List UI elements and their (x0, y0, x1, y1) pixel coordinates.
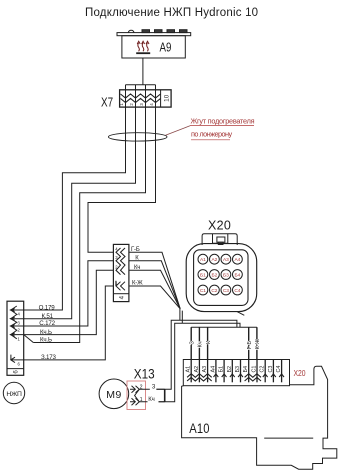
svg-text:X13: X13 (134, 367, 155, 382)
svg-text:А2: А2 (194, 366, 200, 373)
harness note text (191, 116, 255, 138)
X13 contact link (135, 389, 140, 402)
harness oval marker (108, 133, 167, 141)
X2 tab (202, 234, 237, 245)
XS pin numbers (115, 247, 118, 286)
wire 2 X7 to NZhP pin3 (24, 107, 136, 319)
X7 contacts zigzag row2 (121, 99, 161, 103)
svg-text:А9: А9 (160, 41, 172, 54)
A9 mounting pads (142, 30, 150, 33)
wire 4 X7 to XS pin4 (88, 107, 156, 252)
svg-text:Подключение НЖП Hydronic 10: Подключение НЖП Hydronic 10 (85, 7, 258, 19)
X13 pin numbers (140, 384, 143, 403)
svg-text:НЖП: НЖП (6, 391, 22, 398)
NZhP contact 1 (11, 310, 24, 335)
wire XS G-B to junction (129, 252, 180, 308)
X20 pin Б4 (248, 360, 250, 383)
X2 pin circles row C (198, 285, 208, 295)
NZhP contact 6 (11, 355, 24, 363)
svg-text:X20: X20 (208, 219, 231, 233)
X7 pin 10 label (163, 94, 170, 102)
harness bus over X20 (191, 326, 257, 328)
XS contacts 1-3 zigzag col1 (116, 248, 121, 275)
svg-text:С3: С3 (223, 288, 229, 294)
wire A9 to X7 (142, 58, 144, 85)
X20 pin А2 (198, 360, 200, 383)
tooth Z to A1 (190, 327, 192, 359)
A9 dome (128, 30, 134, 32)
X20 pin А1 (190, 360, 192, 383)
X20 pin С2 (264, 360, 266, 383)
tooth labels (189, 338, 261, 349)
svg-text:К-Ж: К-Ж (255, 338, 261, 349)
X20 strip label red (294, 368, 306, 378)
X20 pin Б3 (240, 360, 242, 383)
X20 connected chevrons A1-A3 (187, 374, 212, 378)
svg-text:Б2: Б2 (227, 366, 233, 373)
A10 inner edge (264, 437, 313, 439)
svg-text:Кч: Кч (134, 265, 140, 271)
wire XS pin3 to NZhP (S.172) (24, 261, 114, 326)
X13 wire Kch (139, 401, 164, 403)
svg-text:С3: С3 (268, 366, 274, 373)
X2 key (217, 237, 225, 242)
svg-text:А2: А2 (211, 257, 217, 263)
X20 pin А4 (215, 360, 217, 383)
svg-text:К: К (206, 340, 212, 344)
XS divider (113, 293, 128, 295)
svg-text:Б1: Б1 (219, 366, 225, 373)
connector X7 label (101, 96, 113, 110)
X20 connected chevrons B4-C1 (245, 374, 261, 378)
svg-text:4: 4 (18, 312, 21, 317)
svg-text:Жгут подогревателя: Жгут подогревателя (191, 116, 255, 125)
svg-text:10: 10 (163, 94, 170, 102)
svg-text:К.51: К.51 (42, 313, 54, 320)
wire XS Kch to junction (129, 270, 180, 309)
svg-text:3: 3 (18, 320, 21, 325)
NZhP count label 6 (13, 370, 20, 374)
X20 pin Б1 (223, 360, 225, 383)
svg-text:С1: С1 (200, 288, 206, 294)
wire to X13 pin2 (156, 320, 180, 389)
X13 wire labels (148, 384, 156, 403)
svg-text:Б3: Б3 (235, 366, 241, 373)
NZhP divider (7, 368, 24, 370)
NZhP wire labels (39, 304, 57, 361)
svg-text:О.179: О.179 (39, 304, 56, 311)
title (85, 7, 258, 19)
connector X2 round label (208, 219, 231, 233)
X20 pin С3 (272, 360, 274, 383)
wire XS pin2 to NZhP (Kch) (24, 270, 114, 334)
svg-text:С4: С4 (234, 288, 240, 294)
X2 pin labels (200, 257, 241, 294)
A9 heat icon (137, 41, 149, 51)
svg-text:Кч: Кч (198, 341, 204, 347)
svg-text:по лонжерону: по лонжерону (191, 130, 232, 139)
X13 junction bar (164, 389, 166, 402)
X2 body (186, 244, 257, 312)
svg-text:З.173: З.173 (41, 354, 57, 361)
svg-text:Б4: Б4 (243, 366, 249, 373)
wire to X13 pin1 (159, 323, 183, 402)
svg-text:Кч: Кч (148, 397, 155, 403)
svg-text:С2: С2 (260, 366, 266, 373)
svg-text:6: 6 (18, 362, 21, 367)
XS contact 4 (116, 281, 125, 291)
X7 divider (160, 90, 162, 107)
wire to bus K-Zh (182, 323, 240, 327)
svg-text:X20: X20 (294, 368, 306, 378)
tooth G-B to B4 (248, 327, 250, 359)
X20 pin С4 (281, 360, 283, 383)
XS count label 4 (118, 295, 125, 299)
X2 bottom notch (237, 312, 244, 316)
svg-text:С.172: С.172 (39, 320, 55, 327)
connector NZhP body (7, 301, 24, 375)
wire XS K-Zh to junction (129, 286, 180, 309)
svg-text:Г-Б: Г-Б (247, 341, 253, 350)
junction bundle (180, 309, 182, 324)
svg-text:З: З (152, 384, 156, 390)
wire to bus G-B (180, 320, 237, 327)
svg-text:А3: А3 (202, 366, 208, 373)
X13 wire Z (139, 388, 164, 390)
wire 3 X7 to NZhP pin2b (33, 107, 145, 342)
svg-text:А1: А1 (200, 257, 206, 263)
connector X20 strip body (183, 360, 289, 386)
X7 pin numbers (119, 103, 154, 106)
X7 contacts zigzag row1 (121, 94, 161, 98)
X7 feed bus (126, 84, 156, 86)
connector X13 label (134, 367, 155, 382)
svg-text:Б1: Б1 (200, 272, 206, 278)
A10 label (189, 421, 209, 436)
svg-text:А10: А10 (189, 421, 209, 436)
heater A9 body (122, 36, 185, 58)
wire XS pin1 to NZhP (Z.173) (24, 286, 114, 360)
tooth K to A3 (207, 327, 209, 359)
X13 body red (127, 381, 146, 410)
XS contacts 1-3 zigzag col2 (121, 248, 126, 275)
svg-text:Кч.Ь: Кч.Ь (40, 337, 52, 344)
wire 1 X7 to NZhP pin4 (24, 107, 126, 310)
NZhP device circle (3, 382, 24, 403)
NZhP contact zigzag (11, 306, 17, 339)
svg-text:1: 1 (18, 336, 21, 341)
heater unit A9 top bar (117, 33, 191, 36)
NZhP pin numbers (18, 312, 21, 367)
svg-text:С2: С2 (211, 288, 217, 294)
A10 control unit outline (182, 366, 337, 469)
svg-text:Б2: Б2 (211, 272, 217, 278)
X13 contact 1 (130, 398, 139, 405)
tooth Kch to A2 (198, 327, 200, 359)
X20 pin С1 (256, 360, 258, 383)
svg-text:2: 2 (129, 103, 134, 106)
X20 pin А3 (207, 360, 209, 383)
svg-text:3: 3 (139, 103, 144, 106)
X13 contact 2 (130, 386, 139, 393)
svg-text:2: 2 (18, 328, 21, 333)
svg-text:X7: X7 (101, 96, 113, 110)
svg-text:А4: А4 (210, 366, 216, 373)
svg-text:С4: С4 (276, 366, 282, 373)
svg-text:М9: М9 (106, 389, 121, 401)
svg-text:Г-Б: Г-Б (131, 247, 140, 253)
svg-text:К-Ж: К-Ж (132, 281, 143, 287)
svg-text:4: 4 (149, 103, 154, 106)
svg-text:Кч.Ь: Кч.Ь (40, 329, 52, 336)
A9 label (160, 41, 172, 54)
X2 pin circles row B (198, 270, 208, 280)
tooth K-Zh to C1 (256, 327, 258, 359)
NZhP branch wire (24, 335, 33, 343)
svg-text:Б4: Б4 (234, 272, 240, 278)
svg-text:З: З (189, 341, 195, 345)
svg-text:6: 6 (13, 370, 20, 374)
connector X7 body (120, 90, 172, 107)
svg-text:А1: А1 (186, 366, 192, 373)
motor M9 (99, 379, 129, 409)
leader line (166, 126, 191, 135)
X2 tab inner (213, 234, 228, 244)
X2 inner face (194, 250, 248, 306)
svg-text:Б3: Б3 (223, 272, 229, 278)
wire XS K to junction (129, 261, 180, 309)
svg-text:4: 4 (118, 295, 125, 299)
NZhP arrowheads (11, 308, 15, 336)
X2 pin circles row A (198, 254, 208, 264)
svg-text:А3: А3 (223, 257, 229, 263)
svg-text:А4: А4 (234, 257, 240, 263)
XS wire labels (131, 247, 143, 287)
svg-text:С1: С1 (252, 366, 258, 373)
connector XS body (113, 244, 128, 301)
X20 pin Б2 (231, 360, 233, 383)
